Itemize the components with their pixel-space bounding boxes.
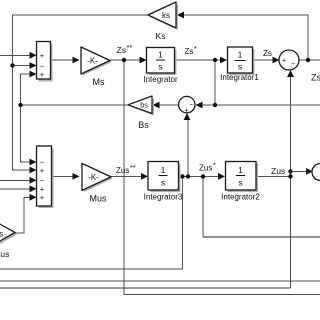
svg-text:+: + [282,58,286,65]
svg-text:Integrator: Integrator [143,75,178,84]
svg-text:kus: kus [0,230,3,239]
svg-text:+: + [40,70,45,79]
svg-text:Ms: Ms [93,77,105,87]
svg-text:Mus: Mus [89,194,107,204]
svg-text:Zs: Zs [263,49,272,58]
svg-text:ks: ks [162,11,170,20]
svg-text:s: s [238,62,242,72]
svg-text:Zs: Zs [311,73,320,83]
svg-text:+: + [40,193,45,202]
svg-text:s: s [238,178,242,188]
svg-text:-K-: -K- [88,173,99,182]
svg-text:bs: bs [140,103,148,110]
svg-text:Ks: Ks [156,31,166,41]
svg-text:1: 1 [161,165,166,175]
svg-text:Bs: Bs [138,120,149,130]
svg-text:Integrator1: Integrator1 [220,73,259,82]
svg-text:−: − [189,102,193,109]
svg-text:+: + [184,108,188,115]
svg-text:1: 1 [238,50,243,60]
svg-text:Zus: Zus [271,166,285,176]
svg-text:-K-: -K- [87,57,98,66]
svg-text:1: 1 [158,50,163,60]
svg-text:Kus: Kus [0,249,9,259]
svg-text:−: − [291,61,295,68]
svg-text:s: s [161,178,165,188]
svg-text:s: s [158,62,162,72]
svg-text:+: + [40,166,45,175]
svg-text:Integrator2: Integrator2 [221,193,260,202]
svg-text:+: + [40,51,45,60]
svg-text:Integrator3: Integrator3 [144,193,183,202]
svg-text:1: 1 [238,165,243,175]
